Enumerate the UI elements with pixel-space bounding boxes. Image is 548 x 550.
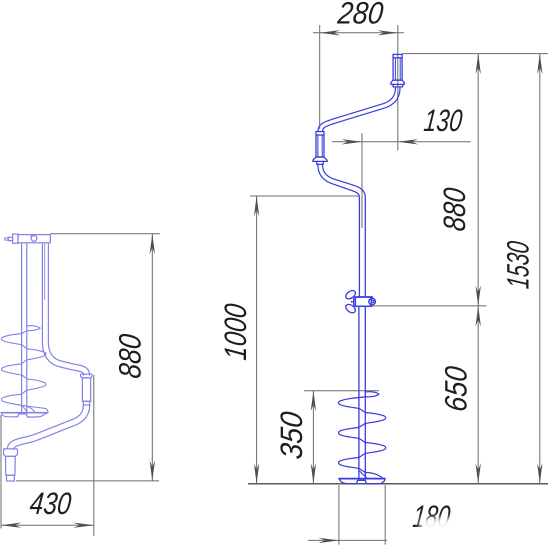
crank bend inner edge bbox=[42, 342, 83, 375]
upper grip inner line L bbox=[394, 58, 396, 80]
extension line 430 right bbox=[93, 375, 95, 536]
dimension line 130 bbox=[332, 141, 471, 143]
arrow 430 left bbox=[1, 523, 22, 528]
extension line 280 left bbox=[319, 25, 321, 129]
auger spiral (folded view) bbox=[27, 326, 40, 331]
svg-text:1530: 1530 bbox=[501, 239, 536, 290]
dimension line 280 bbox=[313, 32, 404, 34]
top bar pin tip bbox=[5, 238, 8, 240]
dimension line 880 right bbox=[477, 54, 479, 306]
telescopic clamp body bbox=[355, 297, 371, 306]
wing nut hub bbox=[354, 298, 356, 306]
upper grip collar bbox=[393, 84, 403, 87]
upper shaft right edge bbox=[364, 198, 366, 297]
clamp screw circle bbox=[369, 298, 376, 305]
folded spiral final sweep bbox=[21, 405, 48, 412]
crank bend outer edge bbox=[48, 342, 89, 375]
arrow 1000 top bbox=[254, 196, 259, 217]
arrow 880l top bbox=[150, 234, 155, 255]
lower shaft right edge bbox=[364, 306, 366, 478]
upper grip cap line bbox=[393, 57, 402, 59]
crank lower tube left edge bbox=[323, 164, 366, 197]
arrow 350 bottom bbox=[311, 463, 316, 484]
shaft tube edge L bbox=[21, 243, 23, 412]
faded watermark patch over 180 bbox=[420, 518, 478, 540]
svg-text:880: 880 bbox=[113, 332, 148, 380]
arrow 350 top bbox=[311, 391, 316, 412]
middle grip collar bbox=[317, 161, 324, 164]
bottom grip cap bbox=[7, 475, 15, 481]
blade plate top edge bbox=[339, 478, 385, 480]
arrow 130 right (outside) bbox=[398, 139, 419, 144]
arrow 1530 bottom bbox=[537, 463, 542, 484]
extension line shaft joint level bbox=[250, 195, 359, 197]
upper handle grip body bbox=[393, 54, 402, 80]
middle grip body bbox=[316, 132, 324, 158]
crank lower tube right edge bbox=[318, 164, 360, 197]
crank tube inner line bbox=[44, 243, 46, 300]
lower crank tube edge B bbox=[7, 405, 83, 449]
bottom grip collar bbox=[3, 449, 17, 456]
extension line 280 right bbox=[397, 25, 399, 151]
dimension line 430 bbox=[1, 524, 94, 526]
arrow 1530 top bbox=[537, 54, 542, 75]
blade plate bottom contour with teeth bbox=[339, 479, 385, 484]
spiral helix curve bbox=[338, 397, 385, 478]
extension line shaft centerline bbox=[361, 133, 363, 228]
folded blade cutting edge line bbox=[23, 406, 28, 413]
arrow 280 left bbox=[320, 30, 341, 35]
shaft tube edge R bbox=[26, 243, 28, 412]
arrow 180 left (outside) bbox=[318, 538, 339, 543]
clamp top edge bbox=[355, 296, 373, 298]
extension line 180 left bbox=[338, 485, 340, 545]
crank tube lower edge bbox=[318, 87, 395, 131]
extension line left-figure top bbox=[50, 233, 160, 235]
dimension line 1530 bbox=[539, 54, 541, 484]
crank tube upper edge bbox=[323, 87, 400, 131]
extension line at clamp level bbox=[368, 305, 487, 307]
svg-text:350: 350 bbox=[274, 409, 309, 460]
arrow 650 top bbox=[476, 306, 481, 327]
middle grip inner line R bbox=[321, 135, 323, 157]
top bar pin bbox=[8, 237, 12, 240]
extension line 430 left bbox=[0, 415, 2, 529]
lower shaft left edge bbox=[358, 306, 360, 478]
arrow 1000 bottom bbox=[254, 463, 259, 484]
lower crank tube edge A bbox=[14, 405, 90, 449]
arrow 880r bottom bbox=[476, 285, 481, 306]
wing nut center dot bbox=[351, 301, 353, 303]
wing nut top view tail bbox=[31, 235, 33, 238]
svg-text:130: 130 bbox=[422, 103, 464, 138]
wing nut top view circle bbox=[31, 236, 37, 242]
grip body (right) bbox=[82, 378, 90, 401]
dimension line 350 bbox=[312, 391, 314, 484]
upper grip inner line R bbox=[399, 58, 401, 80]
arrow 880l bottom bbox=[150, 460, 155, 481]
spiral cutting edge line bbox=[360, 471, 367, 478]
svg-text:1000: 1000 bbox=[218, 301, 253, 361]
ground reference line bbox=[248, 483, 548, 485]
middle grip flare bbox=[313, 157, 328, 161]
dimension line 1000 bbox=[256, 196, 258, 484]
arrow 280 right bbox=[377, 30, 398, 35]
svg-text:650: 650 bbox=[439, 364, 474, 413]
extension line spiral top level bbox=[304, 390, 379, 392]
arrow 650 bottom bbox=[476, 463, 481, 484]
wing nut upper ear bbox=[344, 289, 357, 301]
top bar left cap bbox=[13, 234, 18, 243]
middle grip inner line L bbox=[317, 135, 319, 157]
svg-text:880: 880 bbox=[437, 185, 472, 232]
extension line top (handle top level) bbox=[402, 53, 548, 55]
folded blade bottom contour bbox=[1, 413, 48, 417]
dimension line 880 left bbox=[151, 234, 153, 481]
wing nut lower ear bbox=[344, 303, 357, 315]
arrow 130 left (outside) bbox=[342, 139, 363, 144]
grip collar bbox=[80, 374, 92, 378]
upper grip flare bbox=[391, 80, 404, 84]
crank tube edge R bbox=[47, 243, 49, 342]
auger spiral (extended view) bbox=[366, 392, 379, 397]
svg-text:430: 430 bbox=[28, 486, 73, 521]
middle grip cap line bbox=[316, 134, 324, 136]
arrow 880r top bbox=[476, 54, 481, 75]
grip lower cap bbox=[83, 401, 89, 405]
folded handle top bar bbox=[18, 235, 50, 243]
bottom grip body bbox=[6, 456, 16, 475]
dimension line 180 bbox=[308, 539, 387, 541]
crank tube edge L bbox=[41, 243, 43, 342]
folded spiral helix curve bbox=[1, 331, 46, 413]
extension line left-figure bottom bbox=[16, 480, 159, 482]
svg-text:280: 280 bbox=[335, 0, 385, 30]
dimension line 650 bbox=[477, 306, 479, 484]
folded blade top edge bbox=[1, 412, 48, 414]
extension line 180 right bbox=[384, 485, 386, 545]
upper shaft left edge bbox=[358, 198, 360, 297]
arrow 430 right bbox=[73, 523, 94, 528]
